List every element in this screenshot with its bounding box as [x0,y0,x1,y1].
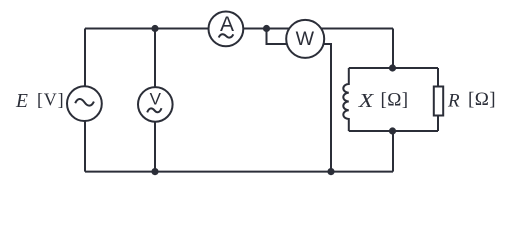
ammeter A circle [209,12,244,47]
wire bottom horizontal [85,171,393,173]
node junction dot (branch top) [389,64,396,71]
svg-text:[V]: [V] [37,90,64,110]
node junction dot (branch bottom) [389,127,396,134]
svg-text:X: X [358,90,375,112]
node junction dot (wattmeter tap on top wire) [263,25,270,32]
AC source E circle [67,86,102,121]
resistor R body [434,87,443,116]
ammeter tilde [219,34,234,37]
wattmeter W circle [286,20,324,58]
wire left vertical (through source E) [84,29,86,172]
wire resistor branch vertical [437,68,439,131]
node junction dot (wattmeter return on bottom wire) [327,168,334,175]
AC source E sine symbol [75,99,94,106]
node junction dot (voltmeter branch, top wire) [151,25,158,32]
inductor X coil (left branch) [343,68,349,131]
svg-text:A: A [220,13,234,36]
wire parallel-branch top horizontal [349,67,438,69]
wire voltmeter branch vertical [154,29,156,172]
svg-text:E: E [15,91,28,112]
svg-text:W: W [296,29,314,50]
wire right vertical from top corner down to parallel branch [392,29,394,69]
voltmeter V circle [138,87,173,122]
svg-text:R: R [447,90,460,111]
voltmeter tilde [147,108,161,112]
wire wattmeter voltage-coil jog from node to W left terminal [267,29,306,45]
wire from branch bottom node down to bottom wire [392,131,394,172]
wire parallel-branch bottom horizontal [349,130,438,132]
wire top horizontal from top-left corner to right corner [85,28,393,30]
node junction dot (voltmeter branch, bottom wire) [151,168,158,175]
svg-text:V: V [150,90,162,109]
svg-text:[Ω]: [Ω] [381,89,409,110]
svg-text:[Ω]: [Ω] [468,89,496,110]
wire wattmeter right terminal down to bottom wire [305,44,331,172]
